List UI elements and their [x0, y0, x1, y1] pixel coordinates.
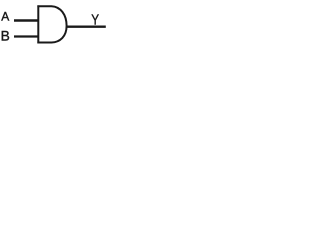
svg-text:Y: Y	[91, 11, 99, 28]
svg-text:A: A	[1, 10, 9, 24]
svg-text:B: B	[1, 29, 10, 44]
